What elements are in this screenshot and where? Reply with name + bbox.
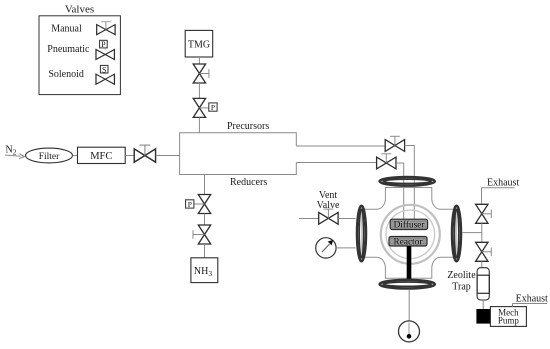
svg-text:Exhaust: Exhaust xyxy=(516,293,548,304)
svg-text:Zeolite: Zeolite xyxy=(447,270,476,281)
svg-text:S: S xyxy=(102,65,106,74)
svg-text:Precursors: Precursors xyxy=(227,121,269,132)
svg-text:P: P xyxy=(211,103,215,112)
svg-text:Solenoid: Solenoid xyxy=(48,69,84,80)
svg-text:Manual: Manual xyxy=(51,24,82,35)
svg-text:Trap: Trap xyxy=(452,281,471,292)
svg-text:Pump: Pump xyxy=(498,316,520,326)
svg-text:Valves: Valves xyxy=(65,4,94,16)
svg-text:Exhaust: Exhaust xyxy=(487,178,519,189)
svg-text:TMG: TMG xyxy=(188,40,210,51)
svg-text:P: P xyxy=(188,200,192,209)
svg-text:Diffuser: Diffuser xyxy=(394,220,426,231)
svg-text:P: P xyxy=(101,40,106,49)
svg-text:MFC: MFC xyxy=(90,151,112,162)
svg-text:Pneumatic: Pneumatic xyxy=(47,44,90,55)
svg-text:Filter: Filter xyxy=(39,152,60,162)
svg-text:Reducers: Reducers xyxy=(230,177,267,188)
svg-text:NH3: NH3 xyxy=(194,266,212,278)
